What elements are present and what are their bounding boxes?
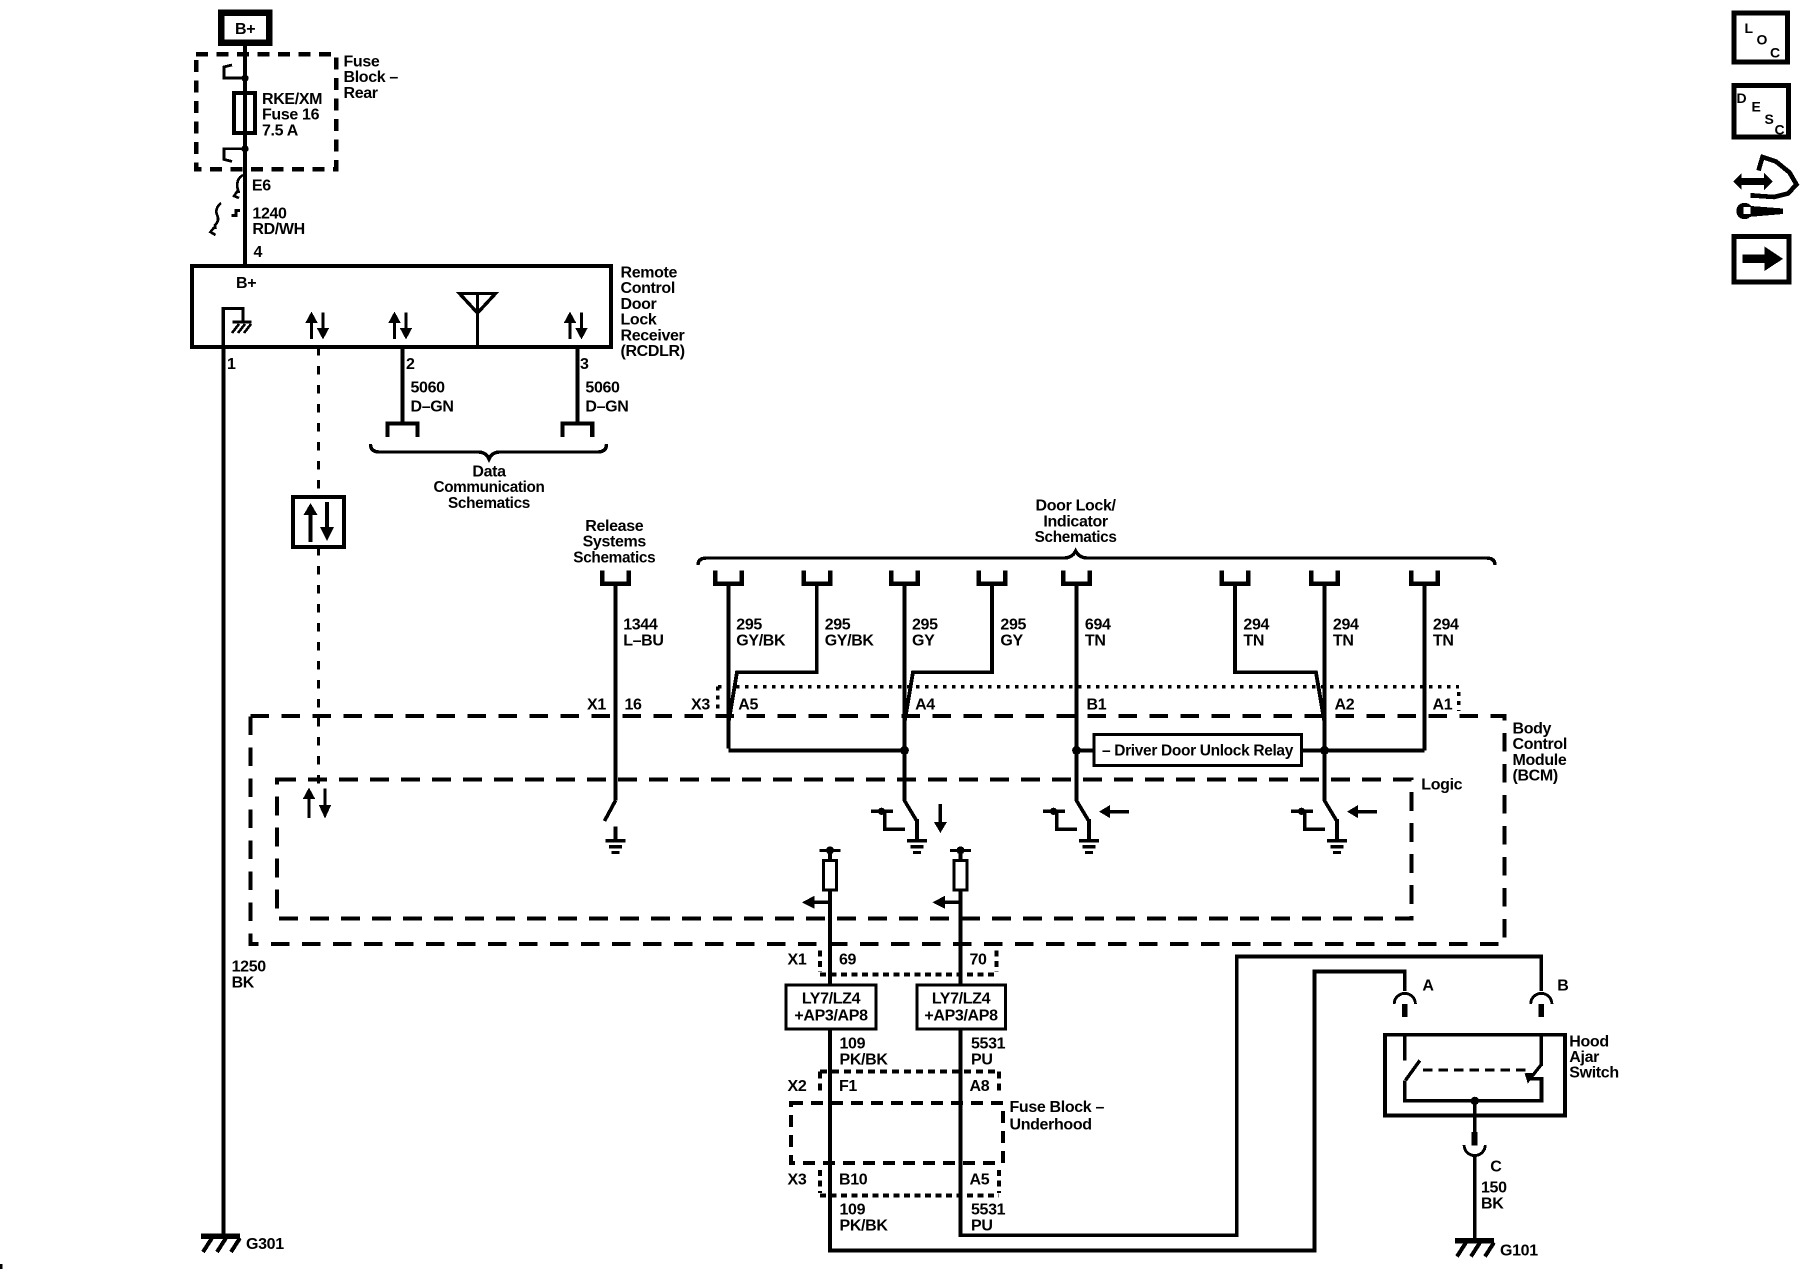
- svg-text:16: 16: [625, 697, 643, 714]
- svg-text:B: B: [1557, 978, 1568, 995]
- svg-text:70: 70: [970, 952, 988, 969]
- svg-text:L: L: [1745, 20, 1754, 36]
- svg-text:PU: PU: [971, 1051, 993, 1068]
- svg-text:A2: A2: [1335, 697, 1355, 714]
- svg-text:Remote: Remote: [621, 265, 678, 282]
- svg-text:X2: X2: [788, 1078, 807, 1095]
- svg-text:Systems: Systems: [583, 534, 647, 551]
- svg-text:BK: BK: [1481, 1196, 1504, 1213]
- svg-text:– Driver Door Unlock Relay: – Driver Door Unlock Relay: [1102, 743, 1293, 760]
- svg-text:Lock: Lock: [621, 312, 657, 329]
- svg-text:G101: G101: [1500, 1243, 1538, 1260]
- svg-text:TN: TN: [1433, 632, 1454, 649]
- svg-text:PK/BK: PK/BK: [840, 1051, 889, 1068]
- svg-text:295: 295: [912, 616, 938, 633]
- svg-text:GY/BK: GY/BK: [736, 632, 786, 649]
- svg-text:GY: GY: [1000, 632, 1023, 649]
- svg-text:295: 295: [1000, 616, 1026, 633]
- svg-text:7.5 A: 7.5 A: [262, 122, 299, 139]
- svg-text:TN: TN: [1085, 632, 1106, 649]
- svg-text:PK/BK: PK/BK: [840, 1218, 889, 1235]
- svg-text:S: S: [1765, 111, 1774, 127]
- svg-text:2: 2: [406, 356, 415, 373]
- svg-text:C: C: [1770, 45, 1780, 61]
- svg-text:Communication: Communication: [434, 479, 545, 496]
- svg-text:Rear: Rear: [344, 85, 378, 102]
- svg-text:294: 294: [1333, 616, 1359, 633]
- svg-text:B+: B+: [235, 21, 255, 38]
- svg-text:1344: 1344: [623, 616, 658, 633]
- svg-text:E6: E6: [252, 177, 271, 194]
- svg-text:+AP3/AP8: +AP3/AP8: [924, 1008, 998, 1025]
- svg-text:X1: X1: [587, 697, 606, 714]
- svg-text:O: O: [1757, 32, 1768, 48]
- svg-text:5060: 5060: [585, 380, 620, 397]
- svg-text:A8: A8: [970, 1078, 990, 1095]
- svg-text:109: 109: [840, 1202, 866, 1219]
- svg-text:Ajar: Ajar: [1569, 1049, 1599, 1066]
- svg-text:150: 150: [1481, 1179, 1507, 1196]
- svg-text:D–GN: D–GN: [411, 398, 454, 415]
- svg-text:Underhood: Underhood: [1010, 1116, 1092, 1133]
- svg-text:E: E: [1752, 99, 1761, 115]
- svg-text:Fuse: Fuse: [344, 54, 380, 71]
- svg-text:1240: 1240: [252, 206, 287, 223]
- svg-text:5531: 5531: [971, 1202, 1006, 1219]
- svg-text:TN: TN: [1333, 632, 1354, 649]
- svg-text:5060: 5060: [411, 380, 446, 397]
- svg-text:Module: Module: [1513, 752, 1567, 769]
- svg-text:F1: F1: [839, 1078, 857, 1095]
- svg-text:Schematics: Schematics: [573, 549, 655, 566]
- svg-text:GY/BK: GY/BK: [825, 632, 875, 649]
- svg-text:TN: TN: [1243, 632, 1264, 649]
- svg-text:Body: Body: [1513, 721, 1552, 738]
- svg-text:Control: Control: [621, 280, 675, 297]
- svg-text:LY7/LZ4: LY7/LZ4: [932, 991, 991, 1008]
- svg-text:B+: B+: [236, 275, 256, 292]
- svg-text:Hood: Hood: [1569, 1033, 1608, 1050]
- svg-text:3: 3: [580, 356, 589, 373]
- svg-text:1: 1: [227, 356, 236, 373]
- svg-text:Release: Release: [585, 518, 643, 535]
- svg-text:Schematics: Schematics: [1035, 529, 1117, 546]
- svg-text:Fuse 16: Fuse 16: [262, 107, 320, 124]
- svg-text:69: 69: [839, 952, 857, 969]
- svg-text:GY: GY: [912, 632, 935, 649]
- svg-text:LY7/LZ4: LY7/LZ4: [802, 991, 861, 1008]
- svg-text:X1: X1: [788, 952, 807, 969]
- svg-text:RKE/XM: RKE/XM: [262, 91, 322, 108]
- svg-text:G301: G301: [246, 1236, 284, 1253]
- svg-text:Door: Door: [621, 296, 657, 313]
- svg-text:A4: A4: [915, 697, 935, 714]
- svg-text:RD/WH: RD/WH: [252, 221, 304, 238]
- svg-text:(RCDLR): (RCDLR): [621, 343, 685, 360]
- svg-text:Fuse Block –: Fuse Block –: [1010, 1099, 1105, 1116]
- svg-text:B10: B10: [839, 1171, 868, 1188]
- svg-text:Control: Control: [1513, 736, 1567, 753]
- svg-text:Receiver: Receiver: [621, 327, 685, 344]
- svg-text:+AP3/AP8: +AP3/AP8: [794, 1008, 868, 1025]
- svg-text:L–BU: L–BU: [623, 632, 663, 649]
- svg-text:Door Lock/: Door Lock/: [1036, 498, 1117, 515]
- svg-text:Schematics: Schematics: [448, 495, 530, 512]
- svg-text:Data: Data: [472, 463, 506, 480]
- svg-text:A5: A5: [970, 1171, 990, 1188]
- svg-text:PU: PU: [971, 1218, 993, 1235]
- svg-text:4: 4: [254, 244, 263, 261]
- svg-text:294: 294: [1433, 616, 1459, 633]
- svg-text:Switch: Switch: [1569, 1065, 1618, 1082]
- svg-text:C: C: [1775, 122, 1785, 138]
- svg-text:295: 295: [825, 616, 851, 633]
- svg-text:D–GN: D–GN: [585, 398, 628, 415]
- svg-text:A: A: [1422, 978, 1434, 995]
- svg-text:B1: B1: [1087, 697, 1107, 714]
- svg-text:Indicator: Indicator: [1043, 513, 1108, 530]
- svg-text:A1: A1: [1433, 697, 1453, 714]
- svg-text:X3: X3: [691, 697, 710, 714]
- svg-text:5531: 5531: [971, 1035, 1006, 1052]
- svg-text:694: 694: [1085, 616, 1111, 633]
- svg-text:Logic: Logic: [1421, 777, 1462, 794]
- svg-text:X3: X3: [788, 1171, 807, 1188]
- svg-text:294: 294: [1243, 616, 1269, 633]
- svg-text:C: C: [1490, 1158, 1502, 1175]
- svg-text:Block –: Block –: [344, 69, 399, 86]
- svg-text:109: 109: [840, 1035, 866, 1052]
- svg-text:(BCM): (BCM): [1513, 768, 1558, 785]
- svg-text:D: D: [1737, 90, 1747, 106]
- svg-text:1250: 1250: [232, 958, 267, 975]
- svg-text:295: 295: [736, 616, 762, 633]
- svg-text:BK: BK: [232, 975, 255, 992]
- svg-text:A5: A5: [738, 697, 758, 714]
